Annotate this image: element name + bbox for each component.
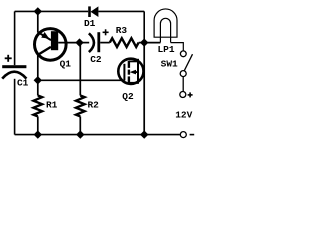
capacitor C1 [2,65,26,78]
wire drain-source column [143,43,145,135]
lamp LP1 [154,9,177,43]
wire bottom rail [15,134,181,136]
diode D1 [88,6,98,17]
battery plus terminal [180,92,186,98]
svg-text:C2: C2 [90,54,102,65]
node junction dot R2 bottom [76,130,84,138]
svg-text:R2: R2 [87,100,99,111]
wire gate rail [38,79,122,81]
svg-text:C1: C1 [17,78,29,89]
svg-text:SW1: SW1 [161,59,178,70]
wire Q1 emitter lead [37,11,39,32]
resistor R2 [76,43,85,135]
transistor Q1 [35,29,67,61]
node junction dot top (emitter Q1 to rail) [34,7,42,15]
wire node to lamp left leg [144,42,160,44]
wire top rail down segment [143,11,145,42]
C2 plus sign [103,29,109,35]
wire Q1 collector lead [37,54,39,80]
mosfet Q2 [118,59,143,84]
minus sign battery [190,134,195,136]
svg-text:R1: R1 [46,100,58,111]
wire top rail right segment [98,10,144,12]
svg-text:12V: 12V [175,110,192,121]
capacitor C2 [89,32,100,52]
svg-text:Q2: Q2 [122,91,134,102]
node junction dot Q2 source bottom [140,130,148,138]
wire left rail lower [14,79,16,135]
svg-text:R3: R3 [116,25,128,36]
node junction dot R1 bottom [34,130,42,138]
plus sign battery [188,92,193,97]
node junction dot base of Q1 [75,38,83,46]
switch SW1 [180,51,192,92]
wire left rail upper [14,11,16,65]
resistor R1 [34,80,43,134]
wire base dot to C2 [80,42,90,44]
battery minus terminal [180,132,186,138]
wire Q1 base lead [58,42,79,44]
wire lamp right leg to switch [171,43,184,51]
svg-text:LP1: LP1 [157,44,174,55]
C1 plus sign [5,55,12,62]
resistor R3 [110,38,139,47]
node junction dot R3/drain/lamp [140,38,148,46]
node junction dot collector/R1/gate [34,76,42,84]
svg-text:D1: D1 [84,18,96,29]
wire R3 to node [139,42,145,44]
wire C2 to R3 [100,42,110,44]
wire top rail left segment [15,10,89,12]
svg-text:Q1: Q1 [60,58,72,69]
